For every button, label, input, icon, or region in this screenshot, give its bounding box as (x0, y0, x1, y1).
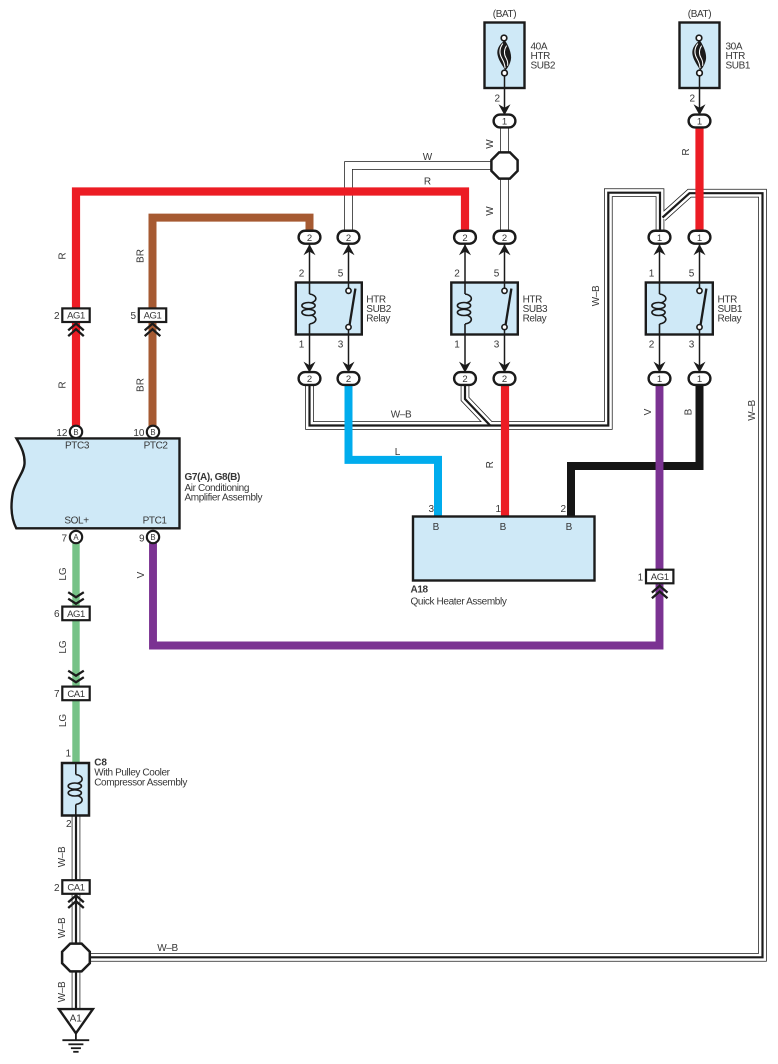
svg-text:R: R (58, 381, 69, 388)
relay HTR SUB3 bottom connectors (454, 372, 476, 385)
svg-text:1: 1 (697, 374, 702, 385)
svg-text:2: 2 (502, 233, 507, 244)
svg-text:BR: BR (136, 249, 147, 263)
relay HTR SUB2 bottom connectors (299, 372, 321, 385)
wire W-B segment: HTR SUB3 relay pin 1 branch diagonal (white core) (465, 385, 490, 426)
amplifier pin 9 (B) (147, 531, 159, 543)
wire W-B segment: C8 pin 2 down to ground junction (black stripe) (75, 816, 77, 948)
svg-text:BR: BR (136, 378, 147, 392)
svg-text:5: 5 (130, 311, 136, 322)
svg-text:SUB2: SUB2 (531, 61, 556, 72)
fuse 40A HTR SUB2 box (485, 23, 525, 89)
svg-text:3: 3 (338, 340, 344, 351)
wire W-B ground net (outlined white wire with black stripe) (76, 193, 763, 1010)
svg-text:1: 1 (495, 504, 501, 515)
IC G7/G8 Air Conditioning Amplifier Assembly box (12, 438, 180, 528)
svg-text:R: R (681, 148, 692, 155)
wire W-B segment: HTR SUB3 relay pin 1 branch diagonal (black stripe) (465, 385, 490, 426)
svg-text:R: R (485, 461, 496, 468)
svg-text:AG1: AG1 (144, 311, 162, 322)
relay HTR SUB3 coil (464, 283, 466, 295)
svg-text:W: W (423, 152, 433, 163)
wire W-B segment: HTR SUB2 relay pin 1 to HTR SUB1 relay pin 1 run (white core) (310, 193, 661, 426)
wire W-B segment: C8 pin 2 down to ground junction (outline) (72, 816, 81, 948)
svg-text:G7(A), G8(B): G7(A), G8(B) (185, 472, 240, 483)
svg-text:2: 2 (462, 233, 467, 244)
relay HTR SUB1 top connectors (649, 231, 671, 244)
svg-text:2: 2 (462, 374, 467, 385)
svg-text:B: B (500, 522, 507, 533)
relay HTR SUB3 pin leads (464, 244, 466, 283)
relay HTR SUB1 switch contacts (699, 283, 701, 289)
wire W-B segment: HTR SUB2 relay pin 1 to HTR SUB1 relay pin 1 run (black stripe) (310, 193, 661, 426)
wire R (red) fuse 30A to HTR SUB1 relay pin 5 (695, 128, 703, 231)
svg-text:B: B (684, 408, 695, 415)
relay HTR SUB3 top connectors (454, 231, 476, 244)
fuse 30A HTR SUB1 element symbol (692, 41, 706, 71)
svg-text:3: 3 (428, 504, 434, 515)
svg-text:1: 1 (299, 340, 305, 351)
wire W-B segment: ground junction to ground A1 (white core) (72, 968, 79, 1010)
svg-text:L: L (395, 447, 401, 458)
svg-text:Quick Heater Assembly: Quick Heater Assembly (411, 597, 507, 608)
svg-text:LG: LG (58, 714, 69, 728)
svg-text:B: B (150, 428, 155, 437)
svg-text:2: 2 (346, 233, 351, 244)
wire W-B segment: branch to right side loop down to ground junction (white core) (80, 193, 763, 957)
in-line connector 2 AG1 (62, 308, 89, 322)
junction node (octagon) W-B ground net (62, 944, 90, 972)
svg-text:SOL+: SOL+ (64, 516, 89, 527)
wire W-B segment: HTR SUB2 relay pin 1 to HTR SUB1 relay pin 1 run (outline) (310, 193, 661, 426)
svg-text:2: 2 (54, 311, 60, 322)
amplifier pin 7 (A) (70, 531, 82, 543)
svg-text:W–B: W–B (57, 846, 68, 867)
svg-text:5: 5 (689, 269, 695, 280)
svg-text:V: V (136, 571, 147, 578)
svg-text:1: 1 (502, 117, 507, 128)
svg-text:A1: A1 (70, 1014, 83, 1025)
svg-text:B: B (433, 522, 440, 533)
svg-text:LG: LG (58, 567, 69, 581)
fuse 40A HTR SUB2 pin 2 lead (504, 76, 506, 111)
wire W segment: junction down to HTR SUB3 relay pin 5 (white core) (501, 175, 508, 231)
svg-text:W–B: W–B (57, 917, 68, 938)
ground bars (62, 1039, 89, 1041)
amplifier pin 12 (B) (70, 426, 82, 438)
svg-text:3: 3 (689, 340, 695, 351)
relay HTR SUB2 coil (309, 283, 311, 295)
wire W-B segment: ground junction to ground A1 (black stripe) (75, 968, 77, 1010)
svg-text:CA1: CA1 (67, 689, 84, 700)
svg-text:5: 5 (494, 269, 500, 280)
wire B (black) HTR SUB1 relay pin 3 to quick heater pin 2 (571, 385, 700, 516)
wire W-B segment: HTR SUB3 relay pin 1 branch diagonal (outline) (465, 385, 490, 426)
svg-text:1: 1 (65, 749, 71, 760)
wire W battery feed net (outlined white wire) (349, 128, 505, 232)
svg-text:R: R (58, 252, 69, 259)
wire W-B segment: C8 pin 2 down to ground junction (white core) (72, 816, 79, 948)
wire W-B segment: branch to right side loop down to ground junction (outline) (80, 193, 763, 957)
svg-text:A: A (73, 533, 79, 542)
svg-text:1: 1 (649, 269, 655, 280)
wire W segment: junction down to HTR SUB3 relay pin 5 (outline) (500, 175, 509, 231)
fuse 40A HTR SUB2 element symbol (497, 41, 511, 71)
relay HTR SUB2 box (296, 283, 362, 335)
in-line connector 6 AG1 (62, 607, 89, 621)
svg-text:AG1: AG1 (67, 609, 85, 620)
svg-text:W–B: W–B (747, 400, 758, 421)
svg-text:W–B: W–B (591, 285, 602, 306)
svg-text:Relay: Relay (523, 314, 547, 325)
svg-text:Relay: Relay (718, 314, 742, 325)
in-line connector 5 AG1 (139, 308, 166, 322)
svg-text:B: B (73, 428, 78, 437)
wire W-B segment: ground junction to ground A1 (outline) (72, 968, 81, 1010)
svg-text:Amplifier Assembly: Amplifier Assembly (185, 493, 263, 504)
svg-text:W: W (485, 139, 496, 149)
svg-text:B: B (566, 522, 573, 533)
svg-text:10: 10 (133, 428, 145, 439)
in-line connector 1 AG1 (646, 570, 673, 584)
svg-text:W–B: W–B (57, 981, 68, 1002)
svg-text:PTC2: PTC2 (144, 440, 169, 451)
svg-text:AG1: AG1 (67, 311, 85, 322)
relay HTR SUB2 top connectors (299, 231, 321, 244)
relay HTR SUB3 switch contacts (504, 283, 506, 289)
svg-text:1: 1 (697, 233, 702, 244)
relay HTR SUB1 pin leads (659, 244, 661, 283)
svg-text:W–B: W–B (391, 410, 412, 421)
svg-text:PTC1: PTC1 (143, 516, 168, 527)
svg-text:PTC3: PTC3 (65, 440, 90, 451)
svg-text:B: B (150, 533, 155, 542)
svg-text:2: 2 (649, 340, 655, 351)
svg-text:2: 2 (502, 374, 507, 385)
svg-text:1: 1 (454, 340, 460, 351)
svg-text:2: 2 (54, 883, 60, 894)
svg-text:(BAT): (BAT) (688, 9, 712, 20)
svg-text:2: 2 (66, 819, 72, 830)
wire R (red) HTR SUB3 relay pin 3 to quick heater pin 1 (501, 385, 509, 516)
relay HTR SUB1 box (646, 283, 713, 335)
svg-text:LG: LG (58, 640, 69, 654)
svg-text:R: R (424, 177, 431, 188)
coil C8 winding (75, 763, 77, 775)
svg-text:12: 12 (56, 428, 68, 439)
wire LG (light green) SOL+ to C8 (72, 542, 79, 764)
svg-text:7: 7 (61, 534, 67, 545)
svg-text:3: 3 (494, 340, 500, 351)
svg-text:2: 2 (299, 269, 305, 280)
coil C8 compressor clutch box (62, 763, 89, 816)
svg-text:W: W (485, 206, 496, 216)
connector 1 below fuse F2 (689, 115, 711, 128)
ground A1 symbol (59, 1009, 93, 1033)
relay HTR SUB1 coil (659, 283, 661, 295)
wire R (red) PTC3 to HTR SUB3 relay pin 2 (76, 192, 465, 427)
svg-text:9: 9 (139, 534, 145, 545)
svg-text:AG1: AG1 (651, 572, 669, 583)
svg-text:Relay: Relay (366, 314, 390, 325)
svg-text:2: 2 (454, 269, 460, 280)
amplifier pin 10 (B) (147, 426, 159, 438)
svg-text:2: 2 (689, 94, 695, 105)
svg-text:2: 2 (494, 94, 500, 105)
svg-text:2: 2 (560, 504, 566, 515)
svg-text:1: 1 (657, 233, 662, 244)
svg-text:W–B: W–B (157, 943, 178, 954)
svg-text:(BAT): (BAT) (493, 9, 517, 20)
svg-text:1: 1 (697, 117, 702, 128)
svg-text:V: V (643, 408, 654, 415)
in-line connector 2 CA1 (62, 880, 89, 894)
relay HTR SUB3 box (451, 283, 518, 335)
svg-text:1: 1 (657, 374, 662, 385)
junction node (octagon) W net (491, 152, 517, 178)
heater A18 Quick Heater Assembly box (413, 517, 595, 581)
svg-text:CA1: CA1 (67, 883, 84, 894)
wire V (violet) HTR SUB1 relay pin 2 to PTC1 (153, 385, 660, 646)
wire W segment: fuse 40A to junction (outline) (500, 128, 509, 157)
fuse 30A HTR SUB1 pin 2 lead (699, 76, 701, 111)
relay HTR SUB2 pin leads (309, 244, 311, 283)
svg-text:SUB1: SUB1 (726, 61, 751, 72)
svg-text:2: 2 (307, 233, 312, 244)
fuse 30A HTR SUB1 box (680, 23, 720, 89)
wire L (cyan) HTR SUB2 relay pin 3 to quick heater pin 3 (349, 385, 439, 516)
wire W segment: junction left to HTR SUB2 relay pin 5 (outline) (349, 166, 496, 232)
svg-text:2: 2 (307, 374, 312, 385)
svg-text:A18: A18 (411, 585, 429, 596)
wire W segment: junction left to HTR SUB2 relay pin 5 (white core) (349, 166, 496, 232)
svg-text:7: 7 (54, 689, 60, 700)
relay HTR SUB2 switch contacts (348, 283, 350, 289)
svg-text:2: 2 (346, 374, 351, 385)
in-line connector 7 CA1 (62, 687, 89, 701)
svg-text:Compressor Assembly: Compressor Assembly (94, 778, 187, 789)
svg-text:1: 1 (638, 572, 644, 583)
relay HTR SUB1 bottom connectors (649, 372, 671, 385)
wire W-B segment: branch to right side loop down to ground junction (black stripe) (80, 193, 763, 957)
svg-text:6: 6 (54, 609, 60, 620)
wire BR (brown) PTC2 to HTR SUB2 relay pin 2 (153, 218, 310, 427)
connector 1 below fuse F1 (494, 115, 516, 128)
wire W segment: fuse 40A to junction (white core) (501, 128, 508, 157)
svg-text:5: 5 (338, 269, 344, 280)
